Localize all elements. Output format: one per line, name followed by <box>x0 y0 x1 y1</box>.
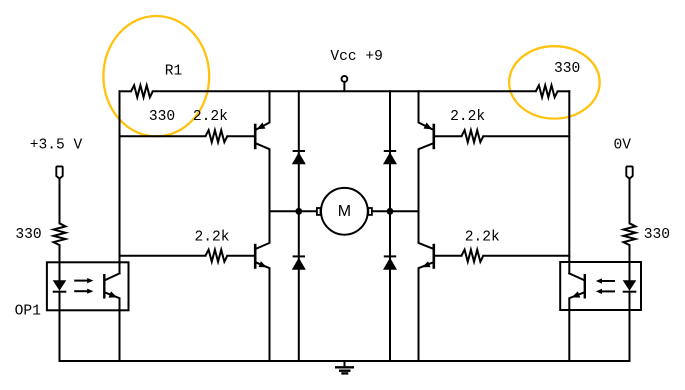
transistor Q3 collector lead <box>256 211 269 248</box>
diode D1 upper-left flyback <box>292 152 306 164</box>
opto OP1 light arrow upper <box>74 278 93 283</box>
transistor Q3 emitter arrow <box>259 261 267 267</box>
svg-text:R1: R1 <box>165 64 183 80</box>
wire OP2 emitter to ground rail <box>568 310 570 361</box>
svg-text:2.2k: 2.2k <box>195 230 230 246</box>
opto OP2 light arrow lower <box>596 289 615 294</box>
opto OP1 light arrow lower <box>74 289 93 294</box>
transistor Q2 emitter lead from rail <box>419 91 433 129</box>
wire left LED cathode to ground rail <box>59 292 61 361</box>
diode D1 upper-left flyback cathode bar <box>293 150 305 152</box>
wire upper-right base lead from transistor <box>435 135 462 137</box>
opto OP2 phototransistor collector <box>569 273 584 280</box>
wire top rail right segment <box>558 90 570 92</box>
svg-text:+3.5 V: +3.5 V <box>30 138 83 154</box>
svg-text:M: M <box>338 203 351 220</box>
resistor 2.2k upper-left <box>206 130 228 142</box>
resistor 330 right input <box>624 223 636 245</box>
opto OP2 phototransistor base bar <box>584 274 586 299</box>
transistor Q4 emitter lead <box>419 263 433 361</box>
transistor Q4 emitter arrow <box>422 261 430 267</box>
transistor Q4 collector lead <box>419 211 433 248</box>
transistor Q3 emitter lead <box>256 263 269 361</box>
opto OP1 phototransistor base bar <box>103 274 105 299</box>
transistor Q4 lower-right NPN base bar <box>432 244 435 269</box>
terminal +3.5 V <box>56 166 62 178</box>
wire right input resistor to LED <box>629 245 631 280</box>
terminal 0V <box>626 166 632 178</box>
svg-text:330: 330 <box>15 227 41 243</box>
opto-coupler OP1 box <box>47 262 129 310</box>
svg-text:2.2k: 2.2k <box>450 109 485 125</box>
transistor Q1 emitter lead from rail <box>256 91 269 129</box>
resistor 2.2k lower-left <box>206 250 228 262</box>
diode D3 lower-left flyback <box>292 258 306 270</box>
wire upper-left base lead to transistor <box>227 135 254 137</box>
resistor 2.2k lower-right <box>462 250 484 262</box>
wire right drive node vertical <box>568 91 570 273</box>
svg-text:330: 330 <box>644 227 670 243</box>
transistor Q2 emitter arrow <box>424 123 433 130</box>
opto OP1 LED cathode bar <box>53 291 67 293</box>
wire left diode column <box>298 91 300 361</box>
wire right diode column <box>389 91 391 361</box>
opto OP2 LED <box>623 280 637 291</box>
opto OP1 phototransistor emitter <box>105 291 119 310</box>
wire lower-right base lead to right node <box>483 255 569 257</box>
opto-coupler OP2 box <box>560 262 641 310</box>
wire motor left lead <box>270 210 317 212</box>
opto OP2 LED cathode bar <box>623 291 637 293</box>
svg-text:330: 330 <box>149 109 175 125</box>
transistor Q2 collector lead <box>419 144 433 212</box>
motor M1 left terminal <box>317 208 321 215</box>
wire OP1 emitter to ground rail <box>119 310 121 361</box>
wire left drive node vertical <box>119 91 121 273</box>
opto OP2 phototransistor emitter <box>569 291 584 310</box>
opto OP1 LED <box>53 280 67 291</box>
wire upper-right base lead to right node <box>483 135 569 137</box>
svg-text:2.2k: 2.2k <box>465 230 500 246</box>
diode D2 upper-right flyback cathode bar <box>384 150 396 152</box>
wire lower-left base lead to transistor <box>227 255 254 257</box>
node junction left motor wire <box>295 208 302 215</box>
transistor Q1 collector lead <box>256 144 269 212</box>
wire from +3.5V terminal down <box>59 179 61 224</box>
wire from 0V terminal down <box>629 179 631 224</box>
svg-text:0V: 0V <box>614 138 632 154</box>
svg-text:Vcc +9: Vcc +9 <box>330 49 383 65</box>
opto OP2 light arrow upper <box>596 278 615 283</box>
wire lower-right base lead from transistor <box>435 255 462 257</box>
diode D4 lower-right flyback <box>383 258 397 270</box>
wire bottom ground rail <box>60 360 630 362</box>
diode D4 lower-right flyback cathode bar <box>384 255 396 257</box>
resistor 330 in top rail right <box>536 85 558 97</box>
ground <box>335 361 354 373</box>
Vcc +9 terminal <box>342 76 348 82</box>
opto OP1 phototransistor collector <box>105 273 119 280</box>
wire lower-left base lead <box>120 255 206 257</box>
wire right LED cathode to ground rail <box>629 292 631 361</box>
transistor Q1 upper-left PNP base bar <box>254 124 257 150</box>
motor M1 right terminal <box>368 208 372 215</box>
diode D3 lower-left flyback cathode bar <box>293 255 305 257</box>
svg-text:2.2k: 2.2k <box>193 109 228 125</box>
wire Vcc terminal stub <box>343 82 345 91</box>
wire top rail middle segment <box>153 90 536 92</box>
transistor Q3 lower-left NPN base bar <box>254 244 257 269</box>
diode D2 upper-right flyback <box>383 152 397 164</box>
wire top rail left segment <box>120 90 132 92</box>
resistor 330 left input <box>54 223 66 245</box>
motor M1 body <box>321 188 368 235</box>
highlight ellipse around R1 <box>103 16 209 136</box>
resistor 2.2k upper-right <box>462 130 484 142</box>
svg-text:330: 330 <box>554 61 580 77</box>
transistor Q1 emitter arrow <box>257 123 266 130</box>
transistor Q2 upper-right PNP base bar <box>432 124 435 150</box>
resistor R1 330 in top rail <box>131 85 153 97</box>
svg-text:OP1: OP1 <box>15 304 42 320</box>
wire left input resistor to LED <box>59 245 61 280</box>
highlight ellipse around right 330 resistor <box>509 46 600 118</box>
wire upper-left base lead <box>120 135 206 137</box>
node junction right motor wire <box>387 208 394 215</box>
wire motor right lead <box>372 210 419 212</box>
